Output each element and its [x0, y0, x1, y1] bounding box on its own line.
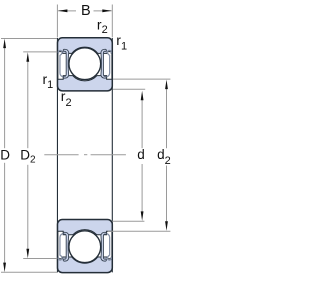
d arrow up [141, 91, 144, 101]
D arrow up [3, 39, 6, 49]
svg-text:D: D [0, 147, 10, 162]
D extension bottom [1, 271, 57, 273]
d dimension line [141, 99, 143, 148]
D2 arrow down [26, 249, 29, 258]
top cross-section: outer+inner ring body [58, 38, 113, 91]
d2 dimension line [166, 88, 168, 148]
top right shield [105, 50, 112, 77]
top ball [69, 48, 101, 80]
d extension top [113, 88, 145, 90]
d extension bottom [112, 220, 144, 222]
svg-text:d: d [137, 147, 145, 162]
d arrow down [141, 211, 144, 221]
d2 arrow down [165, 221, 168, 231]
bottom cross-section (mirror of top) [58, 220, 113, 273]
D2 arrow up [26, 52, 29, 62]
B extension line right [111, 5, 113, 38]
bottom right shield [105, 233, 112, 260]
top cross-section: internal cavity [58, 47, 112, 81]
left face silhouette line [56, 38, 58, 272]
d2 arrow up [165, 80, 168, 90]
B extension line left [56, 5, 58, 38]
D extension top [1, 38, 57, 40]
bottom left shield [58, 233, 65, 260]
D dimension line [4, 47, 6, 148]
bottom ball [69, 231, 101, 263]
B arrow left [58, 9, 68, 12]
B dimension line [58, 10, 76, 12]
bottom internal cavity [58, 230, 112, 264]
top left shield [58, 50, 65, 77]
right face silhouette line [111, 38, 113, 272]
D2 extension top [23, 51, 57, 53]
D2 dimension line [27, 61, 29, 149]
d2 extension top [113, 78, 170, 80]
B arrow right [102, 9, 112, 12]
bottom ring body [58, 220, 113, 273]
D arrow down [3, 263, 6, 273]
D2 extension bottom [23, 258, 57, 260]
d2 extension bottom [108, 230, 171, 232]
centre axis line (dash-dot) [44, 154, 126, 156]
svg-text:B: B [81, 3, 91, 19]
